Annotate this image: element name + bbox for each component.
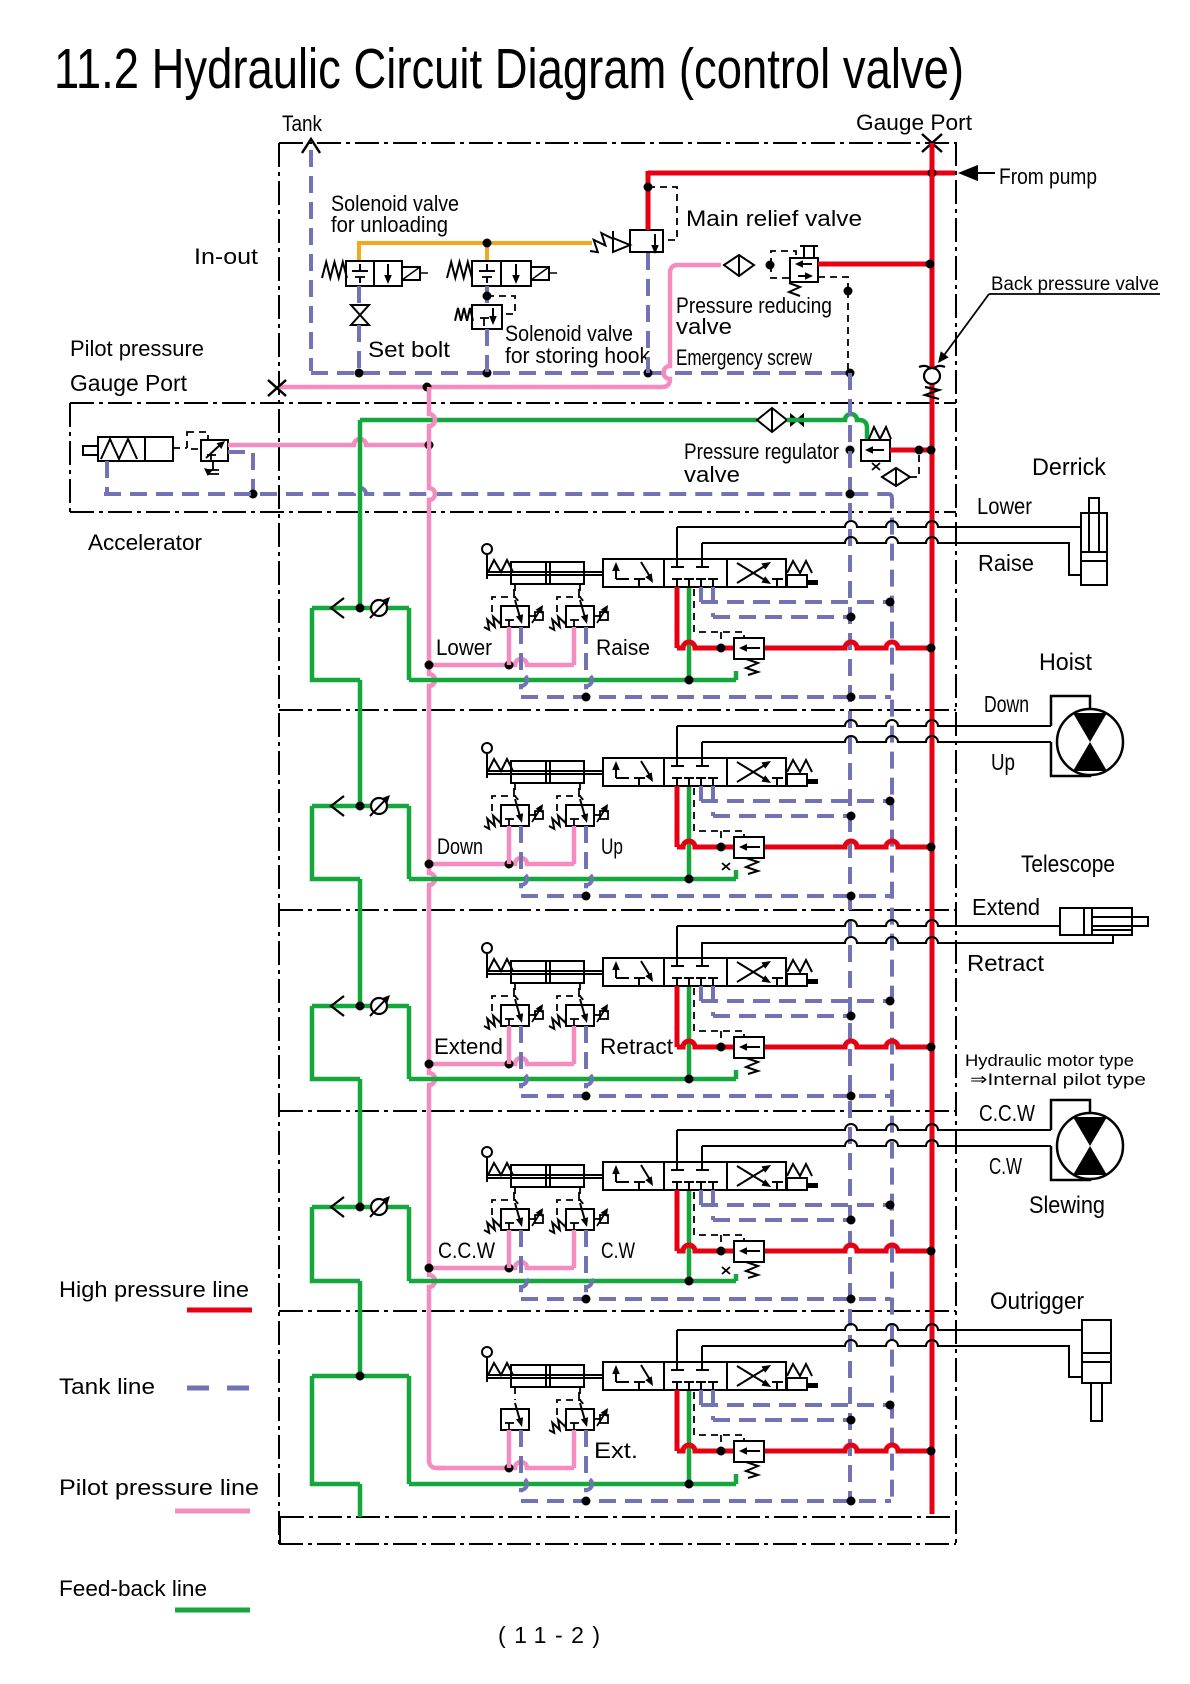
tank manifold (blue dashed horizontal) xyxy=(311,371,850,375)
actuator rod xyxy=(487,970,603,972)
wire reducing valve outlet (red) xyxy=(818,262,932,267)
node green junction xyxy=(685,676,694,685)
wire blue pilot drain leg 2 xyxy=(586,1026,592,1096)
check arrow symbol xyxy=(331,996,344,1016)
wire blue tank run 2 xyxy=(713,814,851,818)
pilot valve proportional arrow xyxy=(529,615,535,617)
separator pressure strip bottom xyxy=(70,511,956,513)
pressure reducing pilot dashes xyxy=(771,251,796,265)
wire blue tank run 2 xyxy=(713,615,851,619)
svg-text:C.C.W: C.C.W xyxy=(438,1238,495,1263)
svg-text:valve: valve xyxy=(684,462,740,487)
node pink branch xyxy=(505,661,514,670)
wire pink riser 2 xyxy=(572,826,577,864)
actuator spring xyxy=(488,1163,513,1175)
from pump arrow xyxy=(958,165,978,181)
node pump line x gauge riser xyxy=(928,169,937,178)
regulator check diamond below xyxy=(882,468,910,486)
pilot valve proportional arrow xyxy=(594,615,600,617)
node blue drain junctions xyxy=(582,1295,591,1304)
wire red from valve xyxy=(675,1190,680,1251)
valve right cell symbols xyxy=(737,564,768,583)
pilot valve proportional arrow xyxy=(529,1218,535,1220)
valve centre cell ports xyxy=(671,1169,684,1171)
wire green right drop xyxy=(407,1207,412,1281)
svg-text:Ext.: Ext. xyxy=(594,1438,638,1463)
wire red from valve xyxy=(675,1390,680,1451)
node pink branch xyxy=(505,860,514,869)
wire accelerator pilot (pink) xyxy=(228,439,429,445)
wire port B to motor xyxy=(702,736,1051,742)
relief valve body xyxy=(734,837,764,858)
svg-text:Extend: Extend xyxy=(434,1034,503,1059)
wire green bank run xyxy=(409,1279,736,1284)
valve right cell symbols xyxy=(737,1367,768,1386)
accelerator cylinder body xyxy=(98,437,173,461)
wire V3 pilot (black dashed) xyxy=(487,296,515,314)
wire green right drop xyxy=(407,1376,412,1484)
valve centre cell ports xyxy=(671,765,684,767)
node reducing pilot xyxy=(766,261,775,270)
wire feedback main (green) top run xyxy=(360,418,757,423)
valve spring xyxy=(787,960,812,972)
relief valve body xyxy=(734,1441,764,1462)
svg-text:Lower: Lower xyxy=(977,493,1032,519)
valve spring xyxy=(787,1164,812,1176)
node red pilot tap xyxy=(644,183,653,192)
valve right cell symbols xyxy=(737,1167,768,1186)
wire green left jog xyxy=(312,806,360,879)
outer border left xyxy=(278,143,280,1544)
wire reducing drain (black dashed) xyxy=(818,277,848,291)
node blue run1 junction xyxy=(886,1201,895,1210)
svg-text:Up: Up xyxy=(601,834,623,859)
node red pilot xyxy=(717,843,726,852)
wire green right drop xyxy=(407,806,412,879)
wire blue tank run 1 xyxy=(701,799,890,803)
wire blue valve tank stub 2 xyxy=(711,986,715,1016)
bank separator 5 xyxy=(279,1310,956,1312)
pilot valve body xyxy=(566,606,594,627)
svg-text:Retract: Retract xyxy=(967,950,1045,976)
node pink branch xyxy=(505,1464,514,1473)
valve right cell symbols xyxy=(737,763,768,782)
svg-text:From pump: From pump xyxy=(999,164,1097,189)
solenoid valve V3 for storing hook xyxy=(472,305,502,329)
node blue run1 junction xyxy=(886,598,895,607)
svg-text:Hydraulic motor type: Hydraulic motor type xyxy=(965,1051,1134,1070)
wire green bank run xyxy=(409,1077,736,1082)
wire pink pilot main xyxy=(429,387,435,1462)
wire blue pilot drain leg 2 xyxy=(586,826,592,896)
relief valve spring xyxy=(746,659,758,675)
node blue run2 junction xyxy=(847,613,856,622)
wire green check line xyxy=(312,1205,409,1210)
check arrow symbol xyxy=(331,1197,344,1217)
pilot valve proportional arrow xyxy=(594,1218,600,1220)
pilot valve body xyxy=(566,1005,594,1026)
wire work port B xyxy=(701,942,703,966)
derrick cylinder xyxy=(1081,513,1107,585)
node blue run2 junction xyxy=(847,812,856,821)
pilot valve spring xyxy=(484,816,501,829)
wire pink bank run xyxy=(429,858,574,864)
node pink branch xyxy=(505,1264,514,1273)
node regulator left port xyxy=(846,446,855,455)
svg-text:Derrick: Derrick xyxy=(1032,454,1107,481)
wire red to relief xyxy=(677,1445,734,1451)
valve spring xyxy=(787,1364,812,1376)
main control valve body xyxy=(603,758,786,786)
wire green relief drain riser xyxy=(734,1274,739,1281)
accelerator valve body xyxy=(201,440,228,461)
actuator pilot dashes xyxy=(514,783,516,796)
outer border bottom xyxy=(279,1543,956,1545)
valve solenoid end xyxy=(787,974,807,986)
wire blue valve tank stub 1 xyxy=(699,1390,703,1405)
svg-text:C.W: C.W xyxy=(989,1153,1022,1179)
node drain top xyxy=(844,287,853,296)
wire green bank run xyxy=(409,877,736,882)
pilot valve proportional arrow xyxy=(529,1014,535,1016)
actuator cylinder xyxy=(511,1365,584,1387)
wire blue valve tank stub 2 xyxy=(711,1190,715,1220)
wire work port A xyxy=(676,1330,678,1370)
wire red relief to main xyxy=(764,1245,932,1251)
wire green main segment xyxy=(358,1281,363,1376)
wire blue return main A xyxy=(848,373,852,1501)
gauge port X symbol xyxy=(922,134,942,152)
wire blue drain manifold xyxy=(521,894,891,898)
wire red to relief xyxy=(677,841,734,847)
actuator spring xyxy=(488,1363,513,1375)
node blue drain junctions xyxy=(582,892,591,901)
wire blue valve tank stub 2 xyxy=(711,786,715,816)
node drain junction xyxy=(249,490,258,499)
wire work port A xyxy=(676,726,678,766)
pilot valve dashed frame xyxy=(557,996,585,1011)
pilot valve body xyxy=(501,1409,529,1430)
pilot valve dashed frame xyxy=(557,597,585,612)
separator pressure strip top xyxy=(70,402,956,404)
inner bottom line xyxy=(280,1516,956,1518)
actuator pilot dashes xyxy=(514,983,516,996)
relief orifice xyxy=(722,1267,730,1274)
wire from pump (red) xyxy=(648,171,955,176)
wire port A to outrigger cylinder xyxy=(677,1324,1082,1330)
node V2 drain xyxy=(483,292,492,301)
solenoid valve V1 for unloading xyxy=(346,261,402,286)
valve left cell symbols xyxy=(615,764,617,778)
node red pilot xyxy=(717,1043,726,1052)
wire red relief to main xyxy=(764,642,932,648)
svg-text:C.W: C.W xyxy=(601,1238,635,1263)
svg-text:Main relief valve: Main relief valve xyxy=(686,206,862,231)
node blue run2 junction xyxy=(847,1416,856,1425)
wire regulator outlet (red) xyxy=(890,448,932,453)
wire green main segment xyxy=(358,1484,363,1517)
wire blue tank run 1 xyxy=(701,999,890,1003)
wire blue pilot drain leg 1 xyxy=(521,627,527,697)
svg-text:valve: valve xyxy=(676,314,732,339)
node green main junction xyxy=(356,1002,365,1011)
feedback orifice bowtie xyxy=(791,415,803,425)
wire regulator pilot dashes xyxy=(910,452,919,477)
bank separator 2 xyxy=(279,709,956,711)
wire red to relief xyxy=(677,1041,734,1047)
wire pink to pressure reducing valve xyxy=(279,265,721,387)
svg-text:Telescope: Telescope xyxy=(1021,851,1115,878)
valve solenoid end xyxy=(787,1178,807,1190)
control lever xyxy=(482,743,492,753)
relief valve pilot dashes xyxy=(694,1192,744,1241)
valve right cell symbols xyxy=(737,963,768,982)
wire work port B xyxy=(701,1346,703,1370)
wire green from valve xyxy=(687,1390,692,1484)
pressure regulator spring xyxy=(869,427,891,439)
wire pink riser 2 xyxy=(572,627,577,665)
wire drain to tank (black dashed) xyxy=(847,291,849,371)
node red main junction xyxy=(927,644,936,653)
svg-text:Up: Up xyxy=(991,749,1015,775)
wire accelerator valve drain (blue) xyxy=(228,452,253,494)
wire red relief to main xyxy=(764,1445,932,1451)
svg-text:Down: Down xyxy=(984,691,1029,717)
pressure reducing inlet check diamond xyxy=(724,255,754,276)
wire port B to derrick cylinder xyxy=(702,537,1081,575)
outer border top xyxy=(279,142,956,144)
svg-text:Pressure regulator: Pressure regulator xyxy=(684,439,839,464)
node green main junction xyxy=(356,604,365,613)
feedback check diamond xyxy=(757,408,787,432)
pilot valve spring xyxy=(484,1220,501,1233)
node blue drain junctions xyxy=(582,693,591,702)
actuator cylinder xyxy=(511,562,584,584)
pilot valve proportional arrow xyxy=(594,1418,600,1420)
actuator spring xyxy=(488,959,513,971)
wire port A to motor xyxy=(677,1124,1051,1130)
node blue run1 junction xyxy=(886,997,895,1006)
wire pilot drain manifold (blue dashed) xyxy=(104,488,888,494)
tank line arrow xyxy=(302,139,320,153)
relief valve spring xyxy=(746,1462,758,1478)
node red pilot xyxy=(717,1247,726,1256)
pilot valve dashed frame xyxy=(557,1200,585,1215)
svg-text:Down: Down xyxy=(437,834,483,859)
wire blue drain manifold xyxy=(521,1094,891,1098)
pilot valve spring xyxy=(549,617,566,630)
relief valve pilot dashes xyxy=(694,589,744,638)
wire port B to motor xyxy=(702,1140,1051,1146)
wire green from valve xyxy=(687,587,692,680)
valve left cell symbols xyxy=(615,964,617,978)
accelerator cylinder rod xyxy=(83,446,98,455)
wire green corner into regulator xyxy=(787,414,867,440)
node green junction xyxy=(685,1075,694,1084)
node blue run2 junction xyxy=(847,1216,856,1225)
wire orange pilot supply xyxy=(359,241,592,245)
wire red from valve xyxy=(675,587,680,648)
svg-text:In-out: In-out xyxy=(194,244,258,269)
bank separator 3 xyxy=(279,909,956,911)
wire green left jog xyxy=(312,1376,360,1484)
wire work port B xyxy=(701,742,703,766)
wire blue drain manifold xyxy=(521,1297,891,1301)
wire red relief to main xyxy=(764,841,932,847)
relief valve pilot dashes xyxy=(694,988,744,1037)
wire work port B xyxy=(701,1146,703,1170)
check arrow symbol xyxy=(331,796,344,816)
wire blue valve tank stub 2 xyxy=(711,1390,715,1420)
svg-text:for unloading: for unloading xyxy=(331,212,448,237)
hydraulic motor xyxy=(1057,1113,1123,1179)
node pink main junction xyxy=(425,661,434,670)
svg-text:Tank: Tank xyxy=(282,111,323,136)
pilot valve body xyxy=(501,805,529,826)
wire blue drain manifold xyxy=(521,695,891,699)
svg-text:for storing hook: for storing hook xyxy=(505,343,651,368)
pilot valve body xyxy=(566,805,594,826)
pilot valve proportional arrow xyxy=(529,814,535,816)
node red main junction xyxy=(927,843,936,852)
pilot valve dashed frame xyxy=(492,996,520,1011)
control lever xyxy=(482,1147,492,1157)
pilot valve dashed frame xyxy=(557,1400,585,1415)
pilot gauge port X symbol xyxy=(268,380,286,396)
wire main relief pilot (black dashed) xyxy=(648,187,677,240)
node blue A at regulator strip xyxy=(846,490,855,499)
check orifice circle xyxy=(371,600,387,616)
wire red to relief xyxy=(677,642,734,648)
valve centre cell ports xyxy=(671,965,684,967)
wire green right drop xyxy=(407,1006,412,1079)
actuator rod xyxy=(487,1174,603,1176)
actuator pilot dashes xyxy=(514,1387,516,1400)
wire red from pump line to main relief xyxy=(646,171,651,230)
wire blue pilot drain leg 2 xyxy=(586,1430,592,1501)
wire green bank run xyxy=(409,1482,736,1487)
svg-text:Raise: Raise xyxy=(978,550,1034,576)
relief orifice xyxy=(722,863,730,870)
node blue run1 junction xyxy=(886,797,895,806)
node accelerator pink junction xyxy=(425,441,434,450)
wire blue valve tank stub 1 xyxy=(699,986,703,1001)
wire accelerator drain stub (blue) xyxy=(105,461,109,494)
accelerator box left edge xyxy=(69,403,71,512)
node pink main junction xyxy=(425,1060,434,1069)
valve solenoid end xyxy=(787,575,807,587)
back pressure valve leader xyxy=(942,294,989,358)
wire blue pilot drain leg 1 xyxy=(521,826,527,896)
node green main junction xyxy=(356,1372,365,1381)
pressure regulator valve body xyxy=(861,440,890,461)
svg-text:Back pressure valve: Back pressure valve xyxy=(991,274,1159,295)
relief valve spring xyxy=(746,858,758,874)
main control valve body xyxy=(603,958,786,986)
wire red relief to main xyxy=(764,1041,932,1047)
wire main relief drain (blue) xyxy=(646,253,650,373)
pilot valve body xyxy=(566,1409,594,1430)
wire blue tank run 1 xyxy=(701,600,890,604)
check orifice circle xyxy=(371,1199,387,1215)
control lever xyxy=(482,544,492,554)
wire pink riser 2 xyxy=(572,1026,577,1064)
svg-text:Slewing: Slewing xyxy=(1029,1192,1105,1219)
wire port A to derrick cylinder xyxy=(677,521,1081,527)
hydraulic motor bracket xyxy=(1051,1100,1090,1130)
wire blue tank run 1 xyxy=(701,1203,890,1207)
main relief valve spring xyxy=(590,231,613,252)
node red pilot xyxy=(717,1447,726,1456)
pilot valve proportional arrow xyxy=(594,1014,600,1016)
valve spring xyxy=(787,561,812,573)
wire green check line xyxy=(312,804,409,809)
wire green check line xyxy=(312,606,409,611)
wire green left jog xyxy=(312,1207,360,1281)
wire green feedback main xyxy=(358,420,363,608)
node red pilot xyxy=(717,644,726,653)
relief valve spring xyxy=(746,1058,758,1074)
node blue run2 junction xyxy=(847,1012,856,1021)
wire port B to telescope cylinder xyxy=(702,935,1113,943)
wire V3 to tank manifold (blue) xyxy=(485,329,489,373)
wire pink riser 2 xyxy=(572,1430,577,1468)
check arrow symbol xyxy=(331,598,344,618)
svg-text:Extend: Extend xyxy=(972,894,1040,920)
wire green left jog xyxy=(312,1006,360,1079)
svg-text:Emergency screw: Emergency screw xyxy=(676,345,812,370)
wire green relief drain riser xyxy=(734,671,739,680)
check orifice circle xyxy=(371,998,387,1014)
wire pink riser 1 xyxy=(507,627,512,665)
valve left cell symbols xyxy=(615,565,617,579)
pilot valve proportional arrow xyxy=(594,814,600,816)
bank separator 4 xyxy=(279,1110,956,1112)
svg-text:C.C.W: C.C.W xyxy=(979,1100,1035,1126)
wire port B to outrigger cylinder xyxy=(702,1340,1082,1377)
svg-text:Feed-back line: Feed-back line xyxy=(59,1576,207,1601)
node red main junction xyxy=(927,1043,936,1052)
wire green right drop xyxy=(407,608,412,680)
node orange junction xyxy=(483,239,492,248)
wire green main segment xyxy=(358,680,363,806)
accelerator valve dashed box xyxy=(187,432,208,449)
wire port A to telescope cylinder xyxy=(677,920,1060,926)
pilot valve body xyxy=(501,1209,529,1230)
pilot valve spring xyxy=(549,1420,566,1433)
node blue drain junctions xyxy=(582,1092,591,1101)
outer border right xyxy=(955,142,957,1544)
main control valve body xyxy=(603,559,786,587)
wire pink bank run xyxy=(429,659,574,665)
wire pink riser 2 xyxy=(572,1230,577,1268)
pilot valve spring xyxy=(484,617,501,630)
svg-text:Pilot pressure: Pilot pressure xyxy=(70,336,204,361)
wire blue tank run 2 xyxy=(713,1014,851,1018)
valve spring xyxy=(787,760,812,772)
wire pink riser 1 xyxy=(507,1230,512,1268)
hydraulic motor xyxy=(1057,709,1123,775)
wire pink riser 1 xyxy=(507,1430,512,1468)
actuator cylinder xyxy=(511,1165,584,1187)
wire pink riser 1 xyxy=(507,1026,512,1064)
hydraulic motor bracket xyxy=(1051,696,1090,726)
valve centre cell ports xyxy=(671,1369,684,1371)
node green junction xyxy=(685,1480,694,1489)
relief valve spring xyxy=(746,1262,758,1278)
svg-text:Gauge Port: Gauge Port xyxy=(70,370,188,396)
wire blue pilot drain leg 2 xyxy=(586,627,592,697)
